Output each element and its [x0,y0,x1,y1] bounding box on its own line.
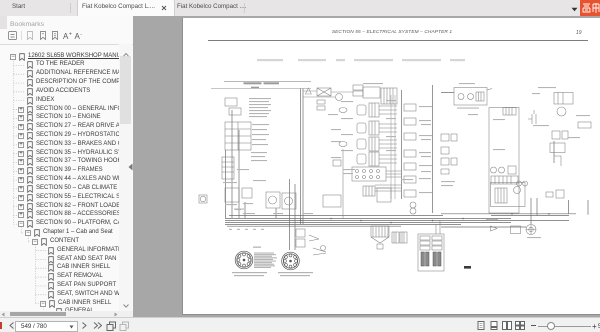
wire number ticks under bundle [229,229,232,230]
header text [183,30,600,35]
zoom slider [531,325,536,326]
toolbar icons [8,31,118,42]
relay block K2 contact grid [225,122,251,150]
switch SW2 [225,188,239,202]
panel horizontal scrollbar [0,311,133,317]
connector pairs C5 [441,134,449,141]
connector C1S pins [243,253,246,256]
label sensor S1 [533,125,549,126]
switch SW5 [546,192,553,197]
wire junction dots [300,220,302,222]
alternator block A1 [491,183,526,207]
wire horizontal runs right [441,93,576,227]
resistor R1 [578,122,591,128]
connector C1S rear view circle [235,251,253,269]
label resistor R1 [576,115,590,116]
switch SW4 [323,195,341,207]
connector center pins [243,259,246,262]
component labels above bundle [234,209,244,210]
fuse panel FP1 [418,234,444,271]
label junction box JB1 [363,83,383,84]
connector group CG3 [357,139,366,149]
U1 pin row [491,176,518,184]
diode D1 [491,226,498,231]
node B oval [339,142,347,147]
main fuses dark pair 1 [421,252,424,266]
node C lamps [410,202,416,208]
lamp L2 [557,107,566,116]
caption connector C1S rear view [232,272,267,273]
sensor S1 [550,143,565,153]
top tab bar [0,0,600,16]
legend pin list text [254,253,274,254]
wire drop from cluster [342,149,344,218]
gauge G2 [282,193,296,209]
connector C2S pins [289,254,292,257]
main power bus wire pair [301,89,304,225]
relay K2 row labels [252,124,269,125]
label motor M1 [527,237,541,238]
wire code labels left column [249,98,271,99]
relay K3 [554,93,573,105]
battery BAT1 hatched [371,226,389,237]
connector C2S rear view circle [282,252,300,270]
wire harness bundle [225,216,569,227]
connector group CG1 [357,105,366,115]
connector group labels [341,101,353,102]
bookmarks panel [0,16,133,318]
wire left-column drops [226,110,296,250]
faint figure title segments [257,59,283,61]
main fuses dark pair 2 [433,252,436,266]
wire feeds to fuse panel [436,221,440,235]
gauge G1 [266,192,280,208]
content area [133,16,600,317]
switch SW6 [556,190,564,198]
label 450 bold [464,266,471,269]
fuse pair F5 [296,229,305,237]
label relay K3 [538,87,556,88]
wire riser pair [391,95,395,199]
left column misc labels [251,152,267,153]
U1 internal relay [508,166,516,174]
capacitor C6 [528,110,536,124]
wire vertical feeders [402,85,433,213]
svg-text:-: - [80,32,82,38]
connector X1 (box with X) [317,88,331,96]
ladder C4 pin labels [419,106,432,107]
caption connector C2S rear view [278,272,313,273]
lamp L1 [336,94,343,101]
right side view-mode icons [477,321,485,330]
labels near C5 [441,181,455,182]
label capacitor C6 [532,93,540,94]
relay K1 [225,98,237,106]
splitter collapse arrow [128,163,133,171]
connector C3 hatched [381,88,397,104]
fuse box F1 upper [454,88,487,106]
label fuse box F1 [459,83,475,84]
fuse pair F4 [552,131,560,139]
small lamp near chevrons [321,246,326,251]
diode arrows D2 D3 [309,235,326,255]
wire right-side drops [531,141,588,224]
resistor R2 [511,226,521,234]
wire rows to riser [375,171,401,191]
resistor pair R3 R4 hatched [392,232,399,243]
header rule [208,40,588,41]
starter motor box [377,188,391,202]
starter solenoid hatched box [363,186,375,196]
control unit U1 (tall box) [489,108,519,214]
wire legend rule [211,81,311,88]
switch SW3 [242,188,252,198]
connector group CG2 [357,123,366,133]
connector ladder C4 pins [404,104,416,111]
ground [371,237,389,243]
sender unit left [199,195,207,203]
connector ladder C2 [222,157,234,179]
node A oval [339,108,347,113]
switch SW7 [333,160,341,166]
legend title text [253,247,261,248]
junction box JB1 [363,87,380,98]
wire links at bus top [303,91,353,97]
fuse pair F3 [353,85,363,90]
panel vertical scrollbar [119,44,132,311]
motor M1 [526,225,536,235]
label LINE TYPE (WIRE SIZE) [244,82,262,84]
connector group CG4 [357,154,366,164]
terminal strip TB1 [352,167,386,181]
connector on U1 top [503,108,516,116]
warning triangle symbol [306,88,312,94]
status bar [0,317,600,332]
U1 internal lamps [491,167,497,173]
fuse pair F2 [317,100,325,104]
svg-text:+: + [69,32,72,38]
